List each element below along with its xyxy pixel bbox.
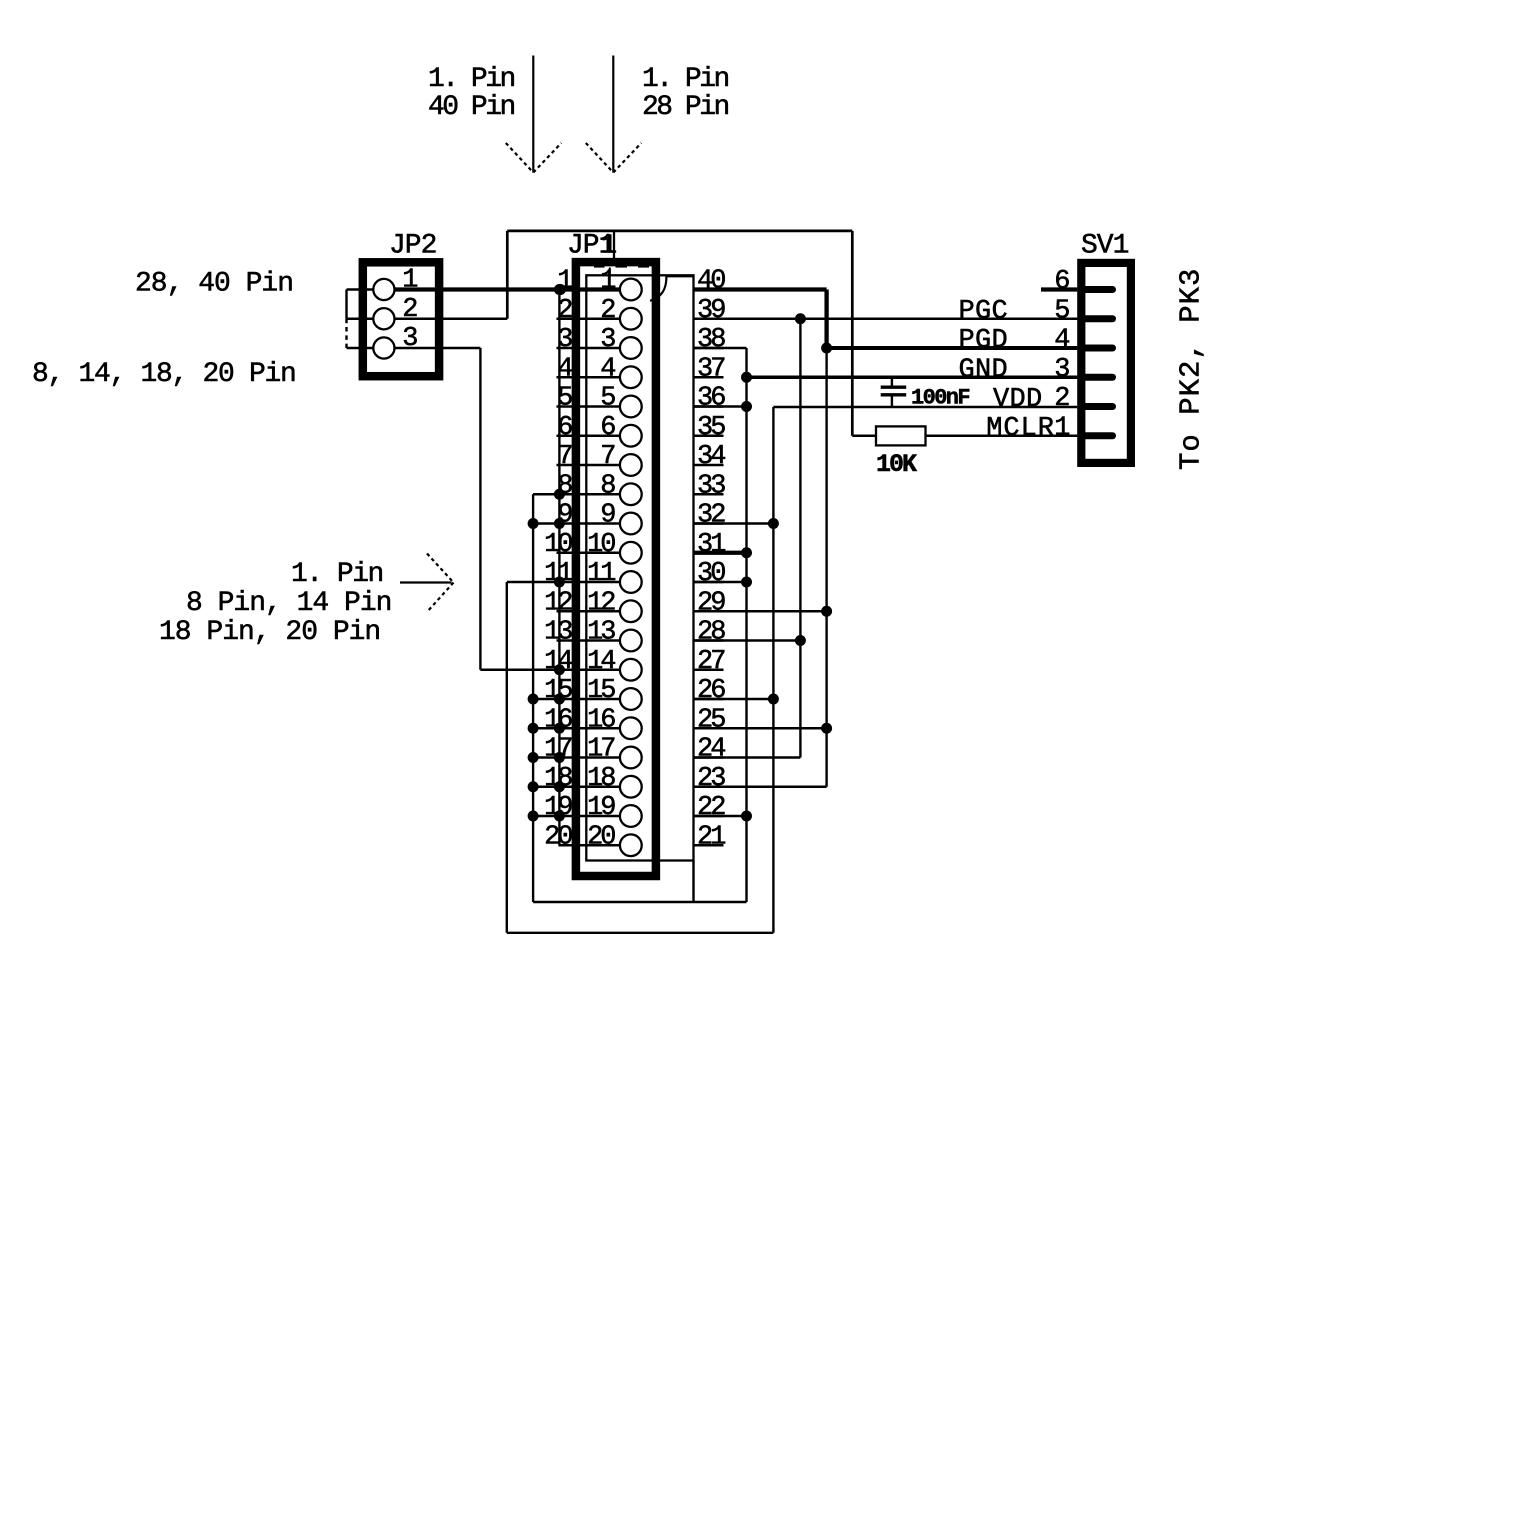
svg-text:To PK2, PK3: To PK2, PK3 <box>1175 268 1208 470</box>
svg-text:26: 26 <box>697 676 725 706</box>
svg-text:38: 38 <box>697 325 725 355</box>
svg-text:24: 24 <box>697 735 725 765</box>
svg-text:33: 33 <box>697 471 725 501</box>
svg-text:2: 2 <box>600 296 615 326</box>
svg-text:13: 13 <box>544 618 572 648</box>
svg-text:29: 29 <box>697 588 725 618</box>
svg-text:17: 17 <box>587 735 615 765</box>
svg-text:1. Pin: 1. Pin <box>291 559 383 590</box>
svg-text:21: 21 <box>697 822 725 852</box>
svg-text:1: 1 <box>1054 413 1069 443</box>
svg-text:34: 34 <box>697 442 725 472</box>
svg-text:MCLR: MCLR <box>986 414 1055 444</box>
svg-text:1. Pin: 1. Pin <box>428 64 515 95</box>
svg-text:40: 40 <box>697 267 725 297</box>
svg-text:8 Pin, 14 Pin: 8 Pin, 14 Pin <box>186 588 391 619</box>
svg-text:23: 23 <box>697 764 725 794</box>
svg-text:3: 3 <box>600 325 615 355</box>
svg-text:30: 30 <box>697 559 725 589</box>
svg-text:12: 12 <box>587 588 615 618</box>
svg-text:100nF: 100nF <box>911 386 969 411</box>
svg-text:GND: GND <box>958 356 1008 386</box>
svg-text:18 Pin, 20 Pin: 18 Pin, 20 Pin <box>159 617 380 648</box>
svg-text:3: 3 <box>1054 355 1069 385</box>
svg-text:22: 22 <box>697 793 725 823</box>
svg-text:JP2: JP2 <box>389 231 436 262</box>
svg-text:31: 31 <box>697 530 725 560</box>
svg-text:2: 2 <box>1054 384 1069 414</box>
svg-text:10: 10 <box>544 530 572 560</box>
svg-text:11: 11 <box>587 559 615 589</box>
svg-text:19: 19 <box>587 793 615 823</box>
svg-text:12: 12 <box>544 588 572 618</box>
svg-text:39: 39 <box>697 296 725 326</box>
svg-text:PGD: PGD <box>958 326 1008 356</box>
svg-text:SV1: SV1 <box>1081 231 1129 262</box>
svg-text:7: 7 <box>600 442 615 472</box>
svg-text:37: 37 <box>697 354 725 384</box>
svg-text:28, 40 Pin: 28, 40 Pin <box>135 269 293 300</box>
svg-text:PGC: PGC <box>958 297 1008 327</box>
svg-text:32: 32 <box>697 501 725 531</box>
svg-text:16: 16 <box>587 705 615 735</box>
svg-text:20: 20 <box>544 822 572 852</box>
svg-text:8, 14, 18, 20 Pin: 8, 14, 18, 20 Pin <box>32 359 296 390</box>
svg-text:5: 5 <box>600 384 615 414</box>
svg-text:9: 9 <box>600 501 615 531</box>
svg-text:6: 6 <box>1054 267 1069 297</box>
svg-text:1. Pin: 1. Pin <box>642 64 729 95</box>
svg-text:40 Pin: 40 Pin <box>428 92 515 123</box>
svg-text:15: 15 <box>587 676 615 706</box>
svg-text:5: 5 <box>1054 296 1069 326</box>
svg-text:20: 20 <box>587 822 615 852</box>
svg-text:35: 35 <box>697 413 725 443</box>
svg-text:8: 8 <box>600 471 615 501</box>
svg-text:27: 27 <box>697 647 725 677</box>
svg-text:10K: 10K <box>876 450 917 479</box>
svg-text:1: 1 <box>600 267 615 297</box>
svg-text:28: 28 <box>697 618 725 648</box>
svg-text:28 Pin: 28 Pin <box>642 92 729 123</box>
svg-text:25: 25 <box>697 705 725 735</box>
svg-text:4: 4 <box>1054 326 1069 356</box>
svg-text:4: 4 <box>600 354 615 384</box>
svg-text:6: 6 <box>600 413 615 443</box>
svg-text:VDD: VDD <box>993 385 1043 415</box>
svg-text:10: 10 <box>587 530 615 560</box>
svg-text:2: 2 <box>402 295 417 325</box>
svg-text:13: 13 <box>587 618 615 648</box>
svg-text:18: 18 <box>587 764 615 794</box>
svg-text:3: 3 <box>402 324 417 354</box>
svg-text:14: 14 <box>587 647 615 677</box>
svg-text:36: 36 <box>697 384 725 414</box>
